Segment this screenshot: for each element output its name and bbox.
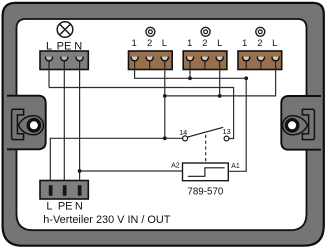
slot PE: [63, 185, 67, 196]
lug right screw: [285, 118, 300, 133]
socket symbol above X3: [201, 27, 210, 36]
svg-text:L: L: [272, 38, 277, 49]
relay contact 14: [183, 136, 188, 141]
lug right screw boss: [283, 116, 308, 135]
wire PE straight: [63, 70, 65, 186]
label L PE N (output block): [46, 200, 82, 212]
svg-text:A2: A2: [171, 162, 180, 169]
label 1 2 L (block X4): [242, 38, 277, 49]
svg-text:2: 2: [257, 38, 262, 49]
svg-text:L: L: [162, 38, 167, 49]
wire X3 L drop: [219, 70, 221, 96]
svg-text:L: L: [46, 200, 52, 212]
clamp N: [76, 57, 83, 61]
terminal block X4: [238, 51, 282, 70]
label L PE N (input block): [46, 41, 82, 53]
wire bus B (L-in to contact 13): [49, 88, 234, 139]
svg-text:h-Verteiler 230 V IN / OUT: h-Verteiler 230 V IN / OUT: [43, 214, 170, 226]
lug left screw boss: [19, 116, 44, 135]
lamp symbol E1: [57, 22, 73, 38]
lug left bracket: [12, 109, 24, 139]
svg-text:A1: A1: [231, 163, 240, 170]
label 1 2 L (block X3): [187, 38, 222, 49]
mounting lug left: [7, 96, 46, 150]
svg-text:13: 13: [223, 127, 231, 136]
relay switch blade: [188, 127, 224, 137]
svg-text:1: 1: [187, 38, 192, 49]
relay coil step symbol: [188, 168, 225, 177]
terminal block X5 (output L PE N): [40, 181, 88, 200]
clamp L: [46, 57, 53, 61]
socket symbol above X2: [146, 27, 155, 36]
wire N straight: [79, 70, 81, 186]
clamp PE: [61, 57, 68, 61]
svg-text:2: 2: [202, 38, 207, 49]
junction A2 / N: [78, 169, 82, 173]
mounting lug right: [281, 96, 321, 150]
lug right bracket: [302, 109, 314, 139]
wire X2 L drop to contact 14 line: [164, 70, 166, 139]
svg-text:PE: PE: [58, 200, 73, 212]
svg-text:L: L: [217, 38, 222, 49]
junction X3-1 on bus A: [188, 76, 192, 80]
svg-text:789-570: 789-570: [187, 187, 224, 198]
relay contact 13: [224, 136, 229, 141]
wire contact 14 line: [50, 138, 182, 185]
junction X2-L on bus C: [163, 94, 167, 98]
junction X3-L on bus C: [218, 94, 222, 98]
label 1 2 L (block X2): [132, 38, 167, 49]
svg-text:2: 2: [147, 38, 152, 49]
svg-text:1: 1: [242, 38, 247, 49]
junction L-out / contact 14: [163, 136, 167, 140]
slot N: [78, 185, 82, 196]
svg-text:1: 1: [132, 38, 137, 49]
wire bus C (terminals L): [165, 70, 276, 96]
socket symbol above X4: [256, 27, 265, 36]
svg-text:N: N: [75, 200, 83, 212]
slot L: [49, 185, 53, 196]
terminal block X3: [183, 51, 227, 70]
svg-text:14: 14: [179, 128, 187, 137]
terminal block X1 (input L PE N): [40, 51, 88, 70]
junction X4-1 on bus A: [244, 76, 248, 80]
relay actuator dashed link: [205, 135, 207, 163]
wire A2 to N: [80, 170, 183, 172]
housing inner opening: [17, 19, 307, 230]
terminal block X2: [129, 51, 173, 70]
lug left screw: [27, 118, 42, 133]
wire bus A (terminals 1): [135, 70, 247, 79]
relay coil box 789-570: [183, 163, 229, 181]
wire L-in drop: [48, 70, 50, 88]
wire X4 terminal 1 to A1: [228, 78, 246, 171]
wire X3 terminal 1 drop: [189, 70, 191, 79]
